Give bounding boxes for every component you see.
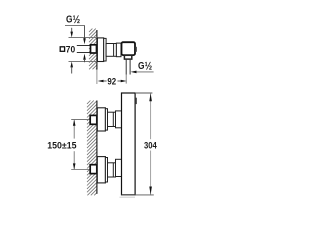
ext line top connection centre [71,119,90,121]
92 dim right arrow [118,80,122,82]
bottom stem [108,163,116,177]
outlet neck below body [124,55,131,59]
svg-text:70: 70 [66,43,75,54]
bottom union nut (front view) [90,165,97,174]
ext line bottom connection centre [71,169,90,171]
70 dim down arrow [71,28,73,33]
body side bump (top view) [135,47,137,52]
svg-text:150±15: 150±15 [47,139,76,150]
150±15 up arrow [73,120,76,126]
elbow body (top view) [122,42,136,55]
stem collar [116,43,121,57]
square symbol of square-70 label [60,47,64,52]
svg-text:304: 304 [144,139,157,150]
faint shadow under body [120,196,136,198]
wall face line (top view) [96,30,98,70]
304 up arrow [149,93,152,101]
304 text [144,139,158,149]
wall face line (front view) [96,101,98,194]
up arrow at pipe stub bottom [83,54,86,60]
top stem [108,112,116,126]
304 down arrow [149,187,152,195]
70 dim up arrow [70,62,73,68]
escutcheon lip [104,38,106,61]
svg-text:92: 92 [107,76,116,87]
outlet pipe right edge [129,59,131,74]
top union nut (front view) [90,115,97,124]
stem divider [113,44,115,57]
wall hatch (top view) [89,29,97,70]
leader underline G1/2 right [133,71,154,73]
top boss [116,111,122,128]
label G1/2 (top-left) [66,14,80,26]
in-wall supply pipe stub [77,46,91,53]
body seam at top boss [122,110,136,112]
top stem divider [112,112,114,126]
bottom stem divider [112,163,114,177]
304 dim line lower segment [150,151,152,195]
92 dim left arrow [98,80,104,83]
304 top ext line [135,92,152,94]
body side bump (front view) [135,98,137,104]
body seam at bottom boss [122,176,136,178]
outlet pipe left edge [125,59,127,74]
304 dim line upper segment [150,93,152,139]
150±15 down arrow [73,163,76,169]
ext line pipe to 92 dim [125,75,127,84]
union nut (top view) [91,45,97,53]
stem (top view) [106,44,116,57]
dim ext line bottom of escutcheon [69,61,97,63]
leader vertical + down arrow to pipe stub [84,25,86,39]
dim ext line top of escutcheon [69,37,97,39]
150±15 dim line upper segment [73,120,75,138]
wall hatch (front view) [87,101,97,196]
leader underline G1/2 top [65,24,85,26]
bottom escutcheon flange (front view) [97,157,105,183]
label G1/2 (right of pipe) [138,60,152,72]
top escutcheon flange (front view) [97,108,105,131]
top escutcheon lip [105,109,107,130]
bottom escutcheon lip [105,158,107,183]
svg-text:G½: G½ [66,14,80,26]
thermostat body column (front view) [122,93,136,195]
150±15 dim line lower segment [73,151,75,169]
bottom boss [116,159,122,176]
304 bottom ext line [122,194,154,196]
svg-text:G½: G½ [138,60,152,72]
left arrow to pipe [131,71,137,74]
ext line wall face for 92 dim [96,70,98,85]
escutcheon flange (top view, 70mm square seen edge-on) [97,38,103,62]
